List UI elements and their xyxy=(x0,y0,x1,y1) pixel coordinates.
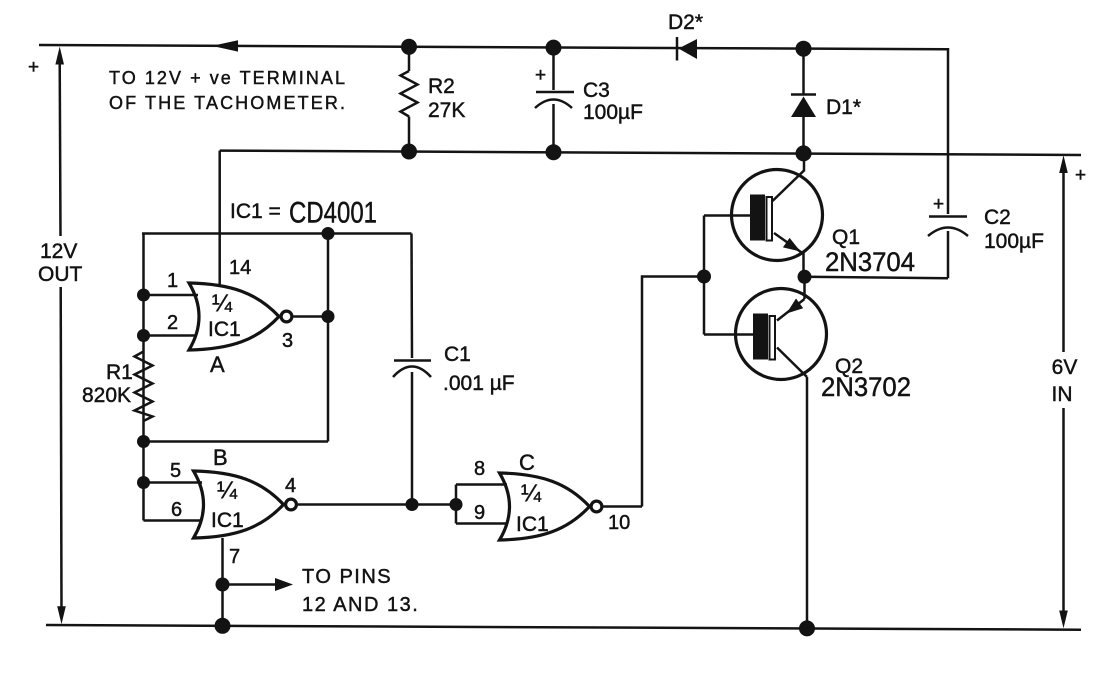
svg-text:2N3702: 2N3702 xyxy=(821,372,911,402)
svg-text:10: 10 xyxy=(608,512,630,534)
resistor R2 xyxy=(401,39,466,160)
gate A (NOR, IC1a) xyxy=(189,283,292,377)
svg-text:6: 6 xyxy=(171,499,182,521)
svg-text:¼: ¼ xyxy=(217,477,238,504)
svg-text:820K: 820K xyxy=(82,384,131,407)
svg-text:TO 12V + ve TERMINAL: TO 12V + ve TERMINAL xyxy=(109,68,345,88)
node dot emitters xyxy=(798,270,812,284)
svg-text:.001 µF: .001 µF xyxy=(443,372,515,395)
svg-text:R2: R2 xyxy=(428,75,455,98)
capacitor C3 xyxy=(535,40,643,161)
svg-text:12 AND 13.: 12 AND 13. xyxy=(302,594,419,616)
svg-text:CD4001: CD4001 xyxy=(289,197,377,230)
pin 7 wire xyxy=(221,538,224,626)
svg-text:IN: IN xyxy=(1052,383,1073,406)
svg-text:B: B xyxy=(213,445,228,470)
svg-text:+: + xyxy=(933,194,944,215)
capacitor C2 xyxy=(928,49,1044,278)
pin 10 output wire xyxy=(603,505,642,508)
svg-text:OUT: OUT xyxy=(38,263,83,286)
node dot Q2 collector/rail xyxy=(799,620,815,636)
svg-text:D1*: D1* xyxy=(826,96,861,119)
svg-text:C: C xyxy=(519,450,535,475)
arrow TO PINS xyxy=(223,583,279,586)
svg-text:+: + xyxy=(1075,165,1086,186)
svg-text:Q1: Q1 xyxy=(832,226,860,249)
svg-text:12V: 12V xyxy=(40,240,77,263)
svg-text:C3: C3 xyxy=(583,79,610,102)
resistor R1 xyxy=(82,352,153,422)
svg-text:IC1: IC1 xyxy=(516,513,549,536)
wire gate A output vertical xyxy=(327,234,330,442)
svg-text:100µF: 100µF xyxy=(583,101,643,124)
svg-text:9: 9 xyxy=(474,502,485,524)
diode D1 xyxy=(791,49,861,154)
node junction dot top rail / D1 xyxy=(796,41,812,57)
gate C (NOR, IC1c) xyxy=(500,450,602,540)
pin 3 output xyxy=(293,315,328,318)
svg-text:TO PINS: TO PINS xyxy=(302,566,392,588)
pin 9 xyxy=(456,522,506,525)
transistor Q1 2N3704 xyxy=(704,146,915,277)
wire bottom rail xyxy=(46,625,1081,630)
pin 2 xyxy=(144,334,198,337)
wire left bus xyxy=(142,234,145,521)
svg-text:IC1: IC1 xyxy=(211,509,244,532)
wire input bracket xyxy=(455,485,458,524)
arrowhead on top rail pointing left xyxy=(212,40,238,51)
svg-text:14: 14 xyxy=(229,257,251,279)
capacitor C1 xyxy=(393,234,515,505)
node dot pin7/rail xyxy=(215,618,231,634)
wire VDD horizontal xyxy=(142,232,412,235)
svg-text:IC1: IC1 xyxy=(208,318,241,341)
svg-text:IC1 =: IC1 = xyxy=(230,200,281,223)
svg-text:7: 7 xyxy=(229,546,240,568)
wire gate C output to bases xyxy=(642,277,704,507)
svg-text:6V: 6V xyxy=(1052,356,1078,379)
pin 4 output wire xyxy=(298,503,456,506)
svg-text:+: + xyxy=(28,57,39,78)
node 12V OUT dimension arrow xyxy=(28,47,83,625)
svg-text:C1: C1 xyxy=(444,343,471,366)
wire emitters to C2 xyxy=(805,277,949,278)
svg-text:100µF: 100µF xyxy=(984,230,1044,253)
wire bases bus xyxy=(703,216,706,335)
svg-text:4: 4 xyxy=(285,475,296,497)
node 6V IN dimension arrow xyxy=(1052,155,1087,628)
wire second rail xyxy=(220,151,1081,155)
node dot xyxy=(322,227,335,240)
svg-text:OF THE TACHOMETER.: OF THE TACHOMETER. xyxy=(109,93,345,113)
svg-text:2N3704: 2N3704 xyxy=(825,247,915,277)
svg-text:+: + xyxy=(535,65,546,86)
svg-text:1: 1 xyxy=(167,270,178,292)
svg-text:8: 8 xyxy=(474,458,485,480)
transistor Q2 2N3702 xyxy=(704,277,911,629)
pin 8 xyxy=(456,483,507,486)
pin 6 xyxy=(144,519,202,522)
gate B (NOR, IC1b) xyxy=(194,445,297,538)
svg-text:27K: 27K xyxy=(428,99,465,122)
wire top rail xyxy=(39,45,946,49)
node junction dot D1 / second rail xyxy=(796,145,812,161)
pin 5 xyxy=(144,481,203,484)
svg-text:¼: ¼ xyxy=(212,290,233,317)
pin 1 xyxy=(144,294,199,297)
svg-text:R1: R1 xyxy=(106,361,133,384)
svg-text:5: 5 xyxy=(170,460,181,482)
svg-text:¼: ¼ xyxy=(521,480,542,507)
svg-text:3: 3 xyxy=(282,330,293,352)
node dot C1/output wire xyxy=(406,498,419,511)
svg-text:D2*: D2* xyxy=(668,11,703,34)
wire pin 14 feed xyxy=(218,151,221,287)
wire feedback horizontal xyxy=(144,440,329,443)
svg-text:A: A xyxy=(210,352,225,377)
diode D2 xyxy=(668,11,703,61)
svg-text:2: 2 xyxy=(167,312,178,334)
svg-text:C2: C2 xyxy=(984,206,1011,229)
node dot input bracket xyxy=(450,498,463,511)
